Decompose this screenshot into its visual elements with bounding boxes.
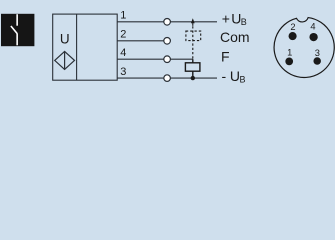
svg-text:B: B	[240, 74, 246, 84]
svg-text:3: 3	[315, 48, 320, 58]
svg-text:Com: Com	[220, 29, 250, 45]
svg-text:U: U	[231, 10, 241, 26]
svg-text:4: 4	[120, 47, 126, 59]
svg-text:2: 2	[290, 22, 295, 32]
svg-text:4: 4	[310, 21, 315, 31]
svg-text:3: 3	[120, 66, 126, 78]
svg-text:F: F	[221, 48, 230, 64]
svg-text:U: U	[60, 32, 70, 47]
svg-text:-: -	[222, 68, 227, 84]
svg-text:1: 1	[120, 10, 126, 22]
svg-text:1: 1	[287, 48, 292, 58]
svg-text:U: U	[230, 68, 240, 84]
svg-text:+: +	[222, 10, 230, 26]
svg-text:2: 2	[120, 29, 126, 41]
svg-text:B: B	[241, 17, 247, 27]
